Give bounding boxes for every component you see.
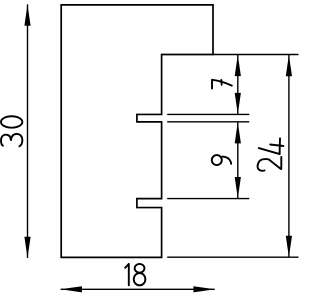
dimension 9 line: [237, 122, 239, 199]
extension line from step to right: [213, 54, 299, 56]
extension line notch1 top: [167, 113, 249, 115]
dimension text 24: [258, 138, 284, 170]
part outline: [61, 5, 213, 258]
dimension 18 line: [61, 288, 215, 290]
dimension text 18: [125, 264, 145, 285]
dimension 24 line: [288, 55, 290, 257]
extension line notch1 bottom: [167, 121, 249, 123]
dimension text 9: [212, 155, 231, 165]
dimension text 30: [1, 116, 22, 146]
extension line notch2 top: [167, 198, 249, 200]
dimension 7 line: [237, 55, 239, 115]
dimension 30 line: [27, 4, 29, 258]
extension line bottom edge to right: [167, 256, 298, 258]
dimension text 7: [212, 80, 232, 89]
